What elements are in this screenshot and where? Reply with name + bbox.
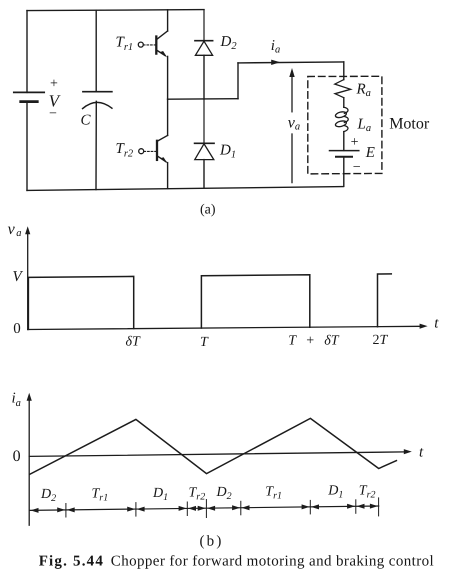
svg-text:Motor: Motor [389,115,430,132]
svg-text:C: C [81,112,92,128]
svg-text:T: T [200,335,209,350]
svg-text:−: − [353,160,361,175]
svg-text:(a): (a) [200,203,216,218]
svg-text:+: + [50,77,58,92]
svg-text:T + δT: T + δT [288,334,339,349]
svg-text:0: 0 [13,321,21,337]
svg-text:−: − [49,107,57,122]
svg-text:Fig. 5.44: Fig. 5.44 [39,553,104,569]
svg-text:+: + [351,135,359,150]
svg-text:δT: δT [126,335,142,350]
svg-text:0: 0 [13,448,21,465]
svg-text:E: E [365,145,375,161]
svg-text:Chopper for forward motoring a: Chopper for forward motoring and braking… [111,553,434,569]
svg-text:2T: 2T [373,333,389,348]
svg-text:(b): (b) [199,533,223,549]
